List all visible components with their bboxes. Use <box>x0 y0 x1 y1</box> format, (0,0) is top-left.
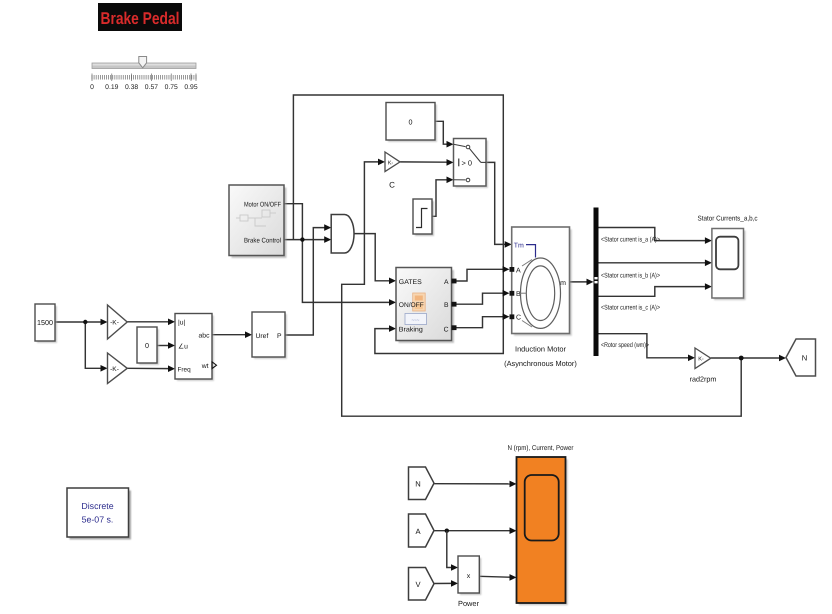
display scope N rpm Current Power <box>517 457 568 605</box>
bus selector bar <box>594 208 599 357</box>
scope Stator Currents <box>712 229 746 301</box>
AND gate <box>331 215 354 254</box>
subsystem GATES / ON-OFF / Braking <box>396 268 457 344</box>
wire GATES C to motor C <box>457 317 504 328</box>
svg-text:K-: K- <box>388 160 394 166</box>
svg-text:|u|: |u| <box>178 319 186 326</box>
wire bus out3 to scope in3 <box>599 287 706 297</box>
from tag V <box>409 568 435 601</box>
bus selector input marks <box>594 277 597 279</box>
svg-text:Stator Currents_a,b,c: Stator Currents_a,b,c <box>698 214 758 222</box>
wire from A to display scope in2 <box>434 530 510 532</box>
svg-text:-K-: -K- <box>110 320 119 327</box>
svg-text:Freq: Freq <box>178 367 192 374</box>
svg-text:0.75: 0.75 <box>165 84 178 91</box>
wire gain C to switch input 2 <box>400 161 448 163</box>
svg-text:K-: K- <box>698 357 704 363</box>
wire Brake Control out2 to AND gate input 2 <box>284 239 325 241</box>
slider tick marks <box>92 74 196 82</box>
svg-text:m: m <box>560 280 566 287</box>
subsystem magnitude-angle-freq to abc <box>175 314 217 382</box>
wire rad2rpm to goto N <box>711 357 780 359</box>
svg-text:<Rotor speed (wm)>: <Rotor speed (wm)> <box>601 342 649 349</box>
wire product to display scope in3 <box>479 575 510 578</box>
wire constant 0 to angle input <box>157 345 170 347</box>
gain K1 -K- <box>108 305 128 339</box>
wire Motor ON/OFF out1 to GATES ON/OFF input <box>284 204 390 303</box>
from tag A <box>409 514 435 547</box>
svg-text:Uref: Uref <box>256 333 269 340</box>
svg-text:x: x <box>467 573 471 580</box>
node after 1500 <box>83 320 87 324</box>
gain C <box>385 152 400 190</box>
svg-text:<Stator current is_b (A)>: <Stator current is_b (A)> <box>601 273 660 280</box>
svg-text:A: A <box>444 279 449 286</box>
constant block 1500 <box>35 304 57 343</box>
wire bus out1 to scope in1 <box>599 228 706 241</box>
svg-text:wt: wt <box>201 363 209 370</box>
svg-text:ON/OFF: ON/OFF <box>399 302 424 309</box>
svg-text:rad2rpm: rad2rpm <box>690 375 717 384</box>
svg-text:Motor ON/OFF: Motor ON/OFF <box>244 201 281 208</box>
induction motor block <box>510 227 572 336</box>
svg-text:0: 0 <box>409 118 413 127</box>
svg-text:∠u: ∠u <box>178 343 188 350</box>
subsystem Motor ON/OFF - Brake Control <box>229 185 287 258</box>
wire 1500 to gains <box>56 322 103 368</box>
wire bus out2 to scope in2 <box>599 262 706 264</box>
svg-text:Brake Control: Brake Control <box>244 237 281 244</box>
switch block <box>454 139 489 189</box>
svg-text:Braking: Braking <box>399 326 423 333</box>
svg-text:B: B <box>444 302 449 309</box>
wire switch output to Tm input <box>486 162 506 244</box>
svg-text:0.95: 0.95 <box>184 84 197 91</box>
svg-text:5e-07 s.: 5e-07 s. <box>82 515 114 525</box>
svg-text:GATES: GATES <box>399 279 422 286</box>
wire GATES A to motor A <box>457 269 504 281</box>
svg-text:C: C <box>516 315 521 322</box>
svg-text:0: 0 <box>145 341 149 350</box>
svg-text:N: N <box>802 354 807 363</box>
svg-text:N (rpm), Current, Power: N (rpm), Current, Power <box>508 444 575 452</box>
goto tag N <box>786 339 816 376</box>
wire A branch to product in1 <box>447 531 452 568</box>
svg-text:Power: Power <box>458 599 479 608</box>
node Brake Control crossing <box>300 237 304 241</box>
svg-text:1500: 1500 <box>37 318 53 327</box>
slider Brake Pedal control <box>92 57 196 69</box>
svg-text:Tm: Tm <box>514 242 524 249</box>
svg-text:0.57: 0.57 <box>145 84 158 91</box>
svg-text:abc: abc <box>199 332 211 339</box>
svg-text:C: C <box>389 181 395 190</box>
wire gain K1 to |u| input <box>127 321 170 323</box>
arrow into gain K2 <box>101 365 108 372</box>
product block x <box>458 556 481 595</box>
svg-text:P: P <box>277 333 282 340</box>
node from A branch <box>445 529 449 533</box>
svg-text:0.38: 0.38 <box>125 84 138 91</box>
wire gain K2 to Freq input <box>127 367 170 369</box>
subsystem Uref / P <box>252 312 287 359</box>
powergui block Discrete 5e-07 s <box>67 488 131 540</box>
wire GATES B to motor B <box>457 293 504 304</box>
wire Uref P up to AND gate input 1 <box>285 228 325 335</box>
constant block 0 left <box>137 327 159 365</box>
svg-text:0.19: 0.19 <box>105 84 118 91</box>
wire brake loop to Braking input <box>293 95 503 354</box>
arrow into gain K1 <box>101 319 108 326</box>
wire AND output to GATES input <box>354 234 390 281</box>
from tag N <box>409 467 435 500</box>
svg-text:~~~: ~~~ <box>412 318 420 323</box>
svg-text:-K-: -K- <box>110 366 119 373</box>
constant block 0 top <box>386 103 437 143</box>
svg-text:N: N <box>415 480 420 489</box>
svg-text:A: A <box>516 267 521 274</box>
svg-text:Induction Motor: Induction Motor <box>515 345 566 354</box>
wire bus out4 rotor speed to rad2rpm <box>599 334 689 358</box>
svg-text:(Asynchronous Motor): (Asynchronous Motor) <box>504 359 577 368</box>
wire constant 0 to switch input 1 <box>435 121 448 144</box>
svg-text:Discrete: Discrete <box>81 501 113 511</box>
node rotor speed branch <box>739 356 744 361</box>
wire from V to product in2 <box>434 582 452 584</box>
gain rad2rpm <box>690 348 717 384</box>
svg-text:C: C <box>444 326 449 333</box>
gain K2 -K- <box>108 353 128 384</box>
wire motor m to bus selector <box>570 281 588 283</box>
svg-text:<Stator current is_c (A)>: <Stator current is_c (A)> <box>601 305 660 312</box>
wire abc to Uref <box>212 334 246 336</box>
slider scale labels <box>90 84 198 91</box>
wire from N to display scope in1 <box>434 483 510 485</box>
label Brake Pedal <box>98 3 182 31</box>
wire step to switch input 3 <box>432 180 448 217</box>
svg-text:<Stator current is_a (A)>: <Stator current is_a (A)> <box>601 237 660 244</box>
svg-text:0: 0 <box>90 84 94 91</box>
step block <box>413 199 434 236</box>
wire rotor speed loop to gain C input <box>342 162 742 416</box>
svg-text:> 0: > 0 <box>462 158 472 167</box>
svg-text:Brake Pedal: Brake Pedal <box>101 9 180 28</box>
